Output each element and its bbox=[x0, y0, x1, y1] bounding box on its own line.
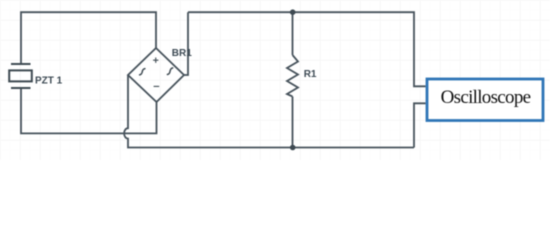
resistor R1 top lead bbox=[292, 12, 294, 55]
svg-text:R1: R1 bbox=[304, 69, 317, 80]
bridge BR1 left AC tilde mark bbox=[140, 69, 145, 75]
wire: bridge left vertex down with hop over wire, to bottom rail bbox=[124, 75, 414, 148]
wire: bridge right vertex jog up to top rail bbox=[184, 12, 188, 75]
bridge rectifier BR1 diamond body bbox=[128, 48, 184, 102]
svg-text:PZT 1: PZT 1 bbox=[35, 76, 63, 87]
wire: PZT bottom down, across bottom, up to bridge bottom vertex bbox=[21, 88, 157, 133]
svg-text:BR1: BR1 bbox=[172, 48, 192, 59]
svg-text:Oscilloscope: Oscilloscope bbox=[441, 87, 531, 108]
oscilloscope box bbox=[427, 79, 543, 121]
wire: top rail from bridge to oscilloscope drop bbox=[188, 12, 426, 86]
junction dot: bottom rail / resistor bbox=[290, 145, 296, 151]
resistor R1 zigzag body bbox=[287, 55, 298, 97]
bridge BR1 plus mark bbox=[153, 58, 158, 63]
wire: oscilloscope lower terminal to bottom rail bbox=[414, 103, 426, 147]
piezo transducer PZT 1 symbol bbox=[9, 64, 32, 88]
wire: PZT top up, across top-left rail, down to bridge top vertex bbox=[21, 12, 156, 64]
junction dot: top rail / resistor bbox=[290, 9, 296, 15]
resistor R1 bottom lead bbox=[292, 97, 294, 148]
bridge BR1 minus mark bbox=[154, 85, 160, 87]
bridge BR1 right AC tilde mark bbox=[167, 68, 172, 75]
